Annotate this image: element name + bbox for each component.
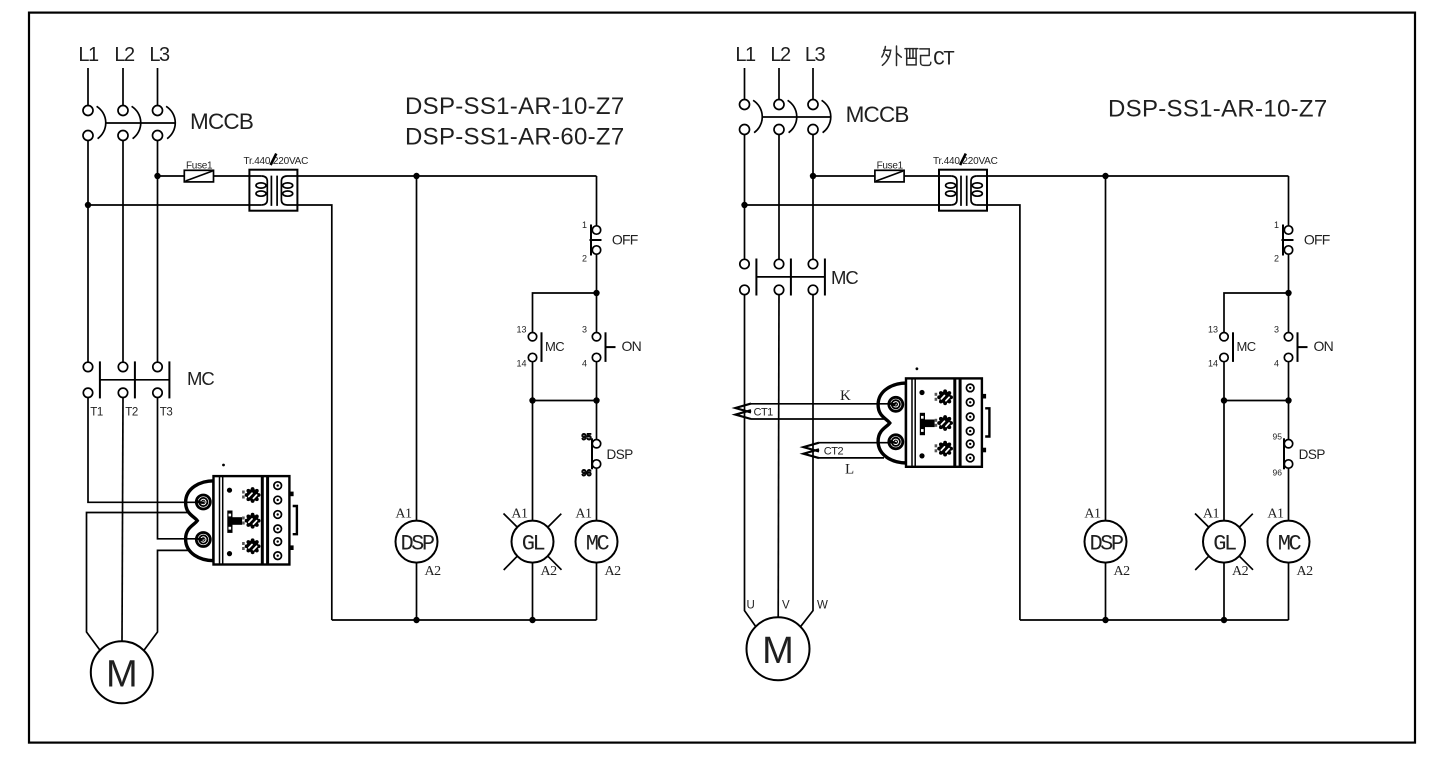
wire cross link (533, 400, 597, 402)
MC power linkage (100, 379, 169, 381)
breaker MCCB pole 2 (118, 106, 141, 141)
pushbutton OFF right (NC) (1282, 225, 1284, 256)
wire junction to MC aux right (1224, 293, 1289, 333)
svg-text:M: M (762, 630, 794, 672)
fuse Fuse1 right (875, 170, 904, 182)
wire CT2 return (819, 457, 884, 459)
svg-text:DSP-SS1-AR-60-Z7: DSP-SS1-AR-60-Z7 (405, 123, 625, 150)
contactor MC power pole 1 (83, 361, 100, 398)
wire transformer secondary to control rail (287, 175, 597, 177)
wire DSP coil to rail (416, 563, 418, 620)
svg-text:DSP: DSP (1089, 531, 1123, 556)
wire transformer secondary to control rail right (977, 175, 1289, 177)
wire L1 to transformer bottom (88, 204, 262, 206)
wire L1 right drop (744, 68, 746, 100)
contactor MC right pole 3 (808, 259, 825, 296)
svg-text:A1: A1 (1203, 507, 1220, 522)
wire CT1 return (751, 418, 884, 420)
svg-text:OFF: OFF (1304, 232, 1330, 248)
wire junction to MC aux branch (533, 293, 597, 333)
wire L2 drop (122, 68, 124, 106)
node GL link right (1221, 397, 1227, 403)
svg-text:MC: MC (545, 339, 564, 354)
wire L2 right MCCB to MC (778, 135, 780, 260)
CT1 pickup chevrons (736, 404, 752, 419)
motor M left (91, 641, 153, 703)
svg-text:DSP-SS1-AR-10-Z7: DSP-SS1-AR-10-Z7 (405, 93, 625, 120)
svg-text:T2: T2 (125, 407, 138, 419)
svg-text:A2: A2 (1114, 564, 1131, 579)
bottom rail right circuit (1020, 619, 1289, 621)
svg-text:A1: A1 (1267, 507, 1284, 522)
node fuse tap on L3 right (810, 173, 816, 179)
node fuse tap on L3 (154, 173, 160, 179)
coil DSP (396, 521, 438, 563)
wire transformer secondary return (287, 205, 332, 620)
svg-text:Fuse1: Fuse1 (877, 160, 904, 171)
svg-text:U: U (747, 600, 755, 612)
svg-text:A2: A2 (605, 564, 622, 579)
wire L3 to fuse right (813, 175, 875, 177)
contact DSP (NC) (591, 438, 593, 469)
lamp GL (512, 521, 554, 563)
wire DSP contact to MC coil (596, 468, 598, 520)
wire L3 right MCCB to MC (812, 135, 814, 260)
MCCB right linkage bar (762, 116, 831, 118)
wire L1 MC to motor through CT1 (745, 295, 756, 627)
node rail GL right (1221, 617, 1227, 623)
svg-text:M: M (106, 654, 138, 696)
wire L3 drop (157, 68, 159, 106)
node rail GL (529, 617, 535, 623)
contactor MC power pole 3 (153, 361, 170, 398)
wire L3 right drop (812, 68, 814, 100)
wire L1 right MCCB to MC (744, 135, 746, 260)
svg-text:GL: GL (522, 531, 545, 556)
svg-text:L: L (845, 462, 854, 478)
wire MC aux to GL right (1223, 362, 1225, 401)
svg-text:T3: T3 (160, 407, 173, 419)
svg-text:DSP-SS1-AR-10-Z7: DSP-SS1-AR-10-Z7 (1108, 96, 1328, 123)
svg-text:CT2: CT2 (824, 446, 844, 458)
svg-text:A1: A1 (511, 507, 528, 522)
wire ON branch drop (596, 293, 598, 333)
svg-text:4: 4 (582, 359, 587, 369)
node DSP branch tap (413, 173, 419, 179)
wire L3 to fuse (158, 175, 185, 177)
svg-text:96: 96 (1273, 468, 1283, 478)
svg-text:L2: L2 (770, 44, 791, 66)
svg-text:MC: MC (1278, 531, 1302, 556)
node MC link right (1285, 397, 1291, 403)
wire DSP coil branch (416, 176, 418, 521)
svg-text:ON: ON (622, 338, 641, 354)
breaker MCCB pole 3 (153, 106, 176, 141)
svg-text:14: 14 (1208, 359, 1218, 369)
wire ON branch drop right (1288, 293, 1290, 333)
wire L1 drop (87, 68, 89, 106)
svg-text:2: 2 (582, 254, 587, 264)
CT2 pickup chevrons (804, 443, 820, 458)
svg-text:A1: A1 (395, 507, 412, 522)
breaker MCCB right pole 3 (808, 100, 831, 135)
pushbutton ON right (NO) (1284, 333, 1292, 341)
coil MC right (1268, 521, 1310, 563)
node MC link (593, 397, 599, 403)
svg-text:4: 4 (1274, 359, 1279, 369)
svg-text:MC: MC (831, 267, 858, 288)
node L1 control tap right (741, 202, 747, 208)
svg-text:GL: GL (1213, 531, 1236, 556)
MC right linkage (756, 276, 825, 278)
node below OFF right (1285, 290, 1291, 296)
aux contact MC right (NO) (1220, 333, 1228, 341)
wire T1 to CT hole (88, 398, 202, 503)
wire GL to rail (532, 563, 534, 620)
svg-text:MC: MC (187, 368, 214, 389)
svg-text:W: W (817, 600, 828, 612)
wire DSP coil branch right (1105, 176, 1107, 521)
wire L1 MCCB to MC (87, 141, 89, 363)
wire T3 return to motor (144, 550, 193, 650)
svg-text:A2: A2 (425, 564, 442, 579)
wire cross link right (1224, 400, 1289, 402)
svg-text:13: 13 (1208, 325, 1218, 335)
fuse Fuse1 (184, 170, 213, 182)
svg-text:A1: A1 (575, 507, 592, 522)
svg-text:1: 1 (582, 220, 587, 230)
svg-text:A2: A2 (1232, 564, 1249, 579)
svg-text:2: 2 (1274, 254, 1279, 264)
wire L2 MCCB to MC (122, 141, 124, 363)
svg-text:Fuse1: Fuse1 (186, 160, 213, 171)
svg-text:13: 13 (516, 325, 526, 335)
svg-text:A1: A1 (1084, 507, 1101, 522)
svg-text:96: 96 (581, 468, 591, 478)
wire L3 MC to motor through CT2 (801, 295, 814, 627)
svg-text:1: 1 (1274, 220, 1279, 230)
wire OFF branch drop (596, 176, 598, 226)
wire fuse to transformer right (904, 175, 951, 177)
svg-text:A2: A2 (1297, 564, 1314, 579)
wire DSP contact to MC coil right (1288, 468, 1290, 520)
svg-text:95: 95 (1273, 432, 1283, 442)
lamp GL right (1203, 521, 1245, 563)
overload relay DSP device right (878, 378, 989, 466)
wire DSP coil to rail right (1105, 563, 1107, 620)
svg-text:DSP: DSP (607, 447, 634, 462)
overload relay DSP device (186, 476, 297, 564)
svg-text:ON: ON (1314, 338, 1333, 354)
contactor MC right pole 2 (774, 259, 791, 296)
coil MC (576, 521, 618, 563)
wire L2 right drop (778, 68, 780, 100)
wire L1 to transformer bottom right (745, 204, 952, 206)
svg-text:L1: L1 (735, 44, 756, 66)
svg-text:14: 14 (516, 359, 526, 369)
svg-text:DSP: DSP (400, 531, 434, 556)
svg-text:MCCB: MCCB (190, 109, 253, 134)
svg-text:DSP: DSP (1299, 447, 1326, 462)
pushbutton ON (NO) (592, 333, 600, 341)
node rail DSP (413, 617, 419, 623)
pushbutton OFF (NC) (590, 225, 592, 256)
wire ON to DSP contact (596, 362, 598, 439)
wire GL to rail right (1223, 563, 1225, 620)
wire T2 to motor (122, 398, 123, 642)
wire MC aux to GL (532, 362, 534, 401)
node DSP branch tap right (1102, 173, 1108, 179)
label 外配CT (882, 46, 931, 66)
wire T3 to CT hole (158, 398, 203, 539)
wire OFF to junction (596, 254, 598, 293)
aux contact MC (NO) (528, 333, 536, 341)
svg-text:Tr.440 220VAC: Tr.440 220VAC (933, 156, 998, 167)
wire GL drop (532, 401, 534, 521)
node below OFF (593, 290, 599, 296)
wire L2 MC to motor (777, 295, 780, 618)
wire GL drop right (1223, 401, 1225, 521)
coil DSP right (1085, 521, 1127, 563)
breaker MCCB right pole 2 (774, 100, 797, 135)
breaker MCCB right pole 1 (740, 100, 763, 135)
svg-text:MC: MC (1237, 339, 1256, 354)
svg-text:MC: MC (586, 531, 610, 556)
wire OFF branch drop right (1288, 176, 1290, 226)
svg-text:3: 3 (1274, 325, 1279, 335)
wire ON to DSP contact right (1288, 362, 1290, 439)
svg-text:L3: L3 (805, 44, 826, 66)
MCCB linkage bar (105, 122, 175, 124)
svg-text:CT1: CT1 (754, 407, 774, 419)
node L1 control tap (85, 202, 91, 208)
svg-text:V: V (782, 600, 790, 612)
wire MC coil to rail (596, 563, 598, 620)
node GL link (529, 397, 535, 403)
wire OFF to junction right (1288, 254, 1290, 293)
svg-text:3: 3 (582, 325, 587, 335)
transformer Tr.440/220VAC right (939, 170, 987, 211)
node rail DSP right (1102, 617, 1108, 623)
svg-text:L2: L2 (114, 44, 135, 66)
transformer Tr.440/220VAC (249, 170, 297, 211)
svg-text:L3: L3 (149, 44, 170, 66)
svg-text:K: K (840, 388, 851, 404)
svg-text:OFF: OFF (612, 232, 638, 248)
svg-text:95: 95 (581, 432, 591, 442)
svg-text:L1: L1 (78, 44, 99, 66)
wire T1 return to motor (87, 513, 194, 651)
wire K to relay hole (751, 403, 896, 405)
breaker MCCB pole 1 (83, 106, 106, 141)
wire fuse to transformer (214, 175, 262, 177)
bottom rail left circuit (332, 619, 597, 621)
svg-text:T1: T1 (90, 407, 103, 419)
svg-text:A2: A2 (541, 564, 558, 579)
svg-text:MCCB: MCCB (846, 102, 909, 127)
svg-text:Tr.440 220VAC: Tr.440 220VAC (244, 156, 309, 167)
wire MC coil to rail right (1288, 563, 1290, 620)
wire CT2 to relay hole (819, 442, 896, 444)
motor M right (747, 617, 810, 680)
contactor MC power pole 2 (118, 361, 135, 398)
contactor MC right pole 1 (740, 259, 757, 296)
wire L3 MCCB to MC (157, 141, 159, 363)
wire transformer secondary return right (977, 205, 1020, 620)
svg-text:CT: CT (933, 49, 955, 72)
contact DSP right (NC) (1283, 438, 1285, 469)
